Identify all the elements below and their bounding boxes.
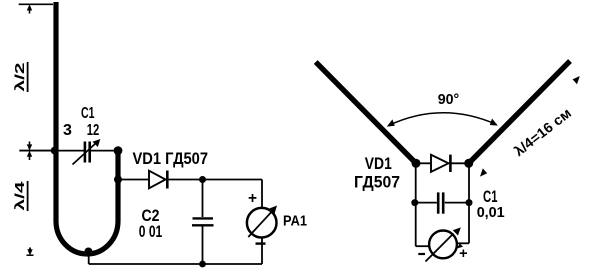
wire into meter right <box>457 242 470 244</box>
svg-text:λ/2: λ/2 <box>12 63 27 92</box>
node C2 top <box>199 176 206 183</box>
90 degree arc <box>389 113 497 126</box>
svg-text:3: 3 <box>63 122 72 139</box>
wire diode to PA1 corner <box>167 179 262 181</box>
diode VD1 (right circuit) <box>431 155 449 172</box>
svg-text:0 01: 0 01 <box>139 223 163 241</box>
svg-text:+: + <box>248 190 257 207</box>
node C2 bottom <box>199 261 206 268</box>
left vertical wire <box>415 163 417 246</box>
riser from antenna bottom <box>88 252 90 264</box>
bottom return wire <box>89 263 262 265</box>
dipole right arm <box>469 61 570 163</box>
svg-text:VD1: VD1 <box>365 155 392 173</box>
PA1 needle <box>248 211 272 237</box>
wire down to PA1 <box>261 180 263 209</box>
wire node to diode (right circuit) <box>416 162 431 164</box>
node left arm <box>412 159 421 168</box>
node on antenna at C1 wire <box>51 147 59 155</box>
dimension arrow top (up) <box>27 4 32 10</box>
node C1 right <box>466 199 473 206</box>
svg-text:90°: 90° <box>438 91 460 108</box>
meter PA1 <box>247 208 277 238</box>
wire PA1 bottom <box>261 238 263 265</box>
small arrowhead at meter right junction <box>457 243 463 248</box>
wire down to C2 <box>202 180 204 218</box>
capacitor C1 (right circuit) <box>416 202 437 204</box>
diode VD1 <box>149 171 166 189</box>
node C1 left <box>411 199 418 206</box>
node top of right element <box>114 146 123 155</box>
dimension arrow middle upper (down) <box>29 142 31 147</box>
svg-text:+: + <box>459 246 467 262</box>
svg-text:0,01: 0,01 <box>477 204 505 221</box>
dimension extension line top <box>19 3 53 5</box>
dim arrowhead near arm tip (up-right) <box>573 76 580 84</box>
svg-text:VD1 ГД507: VD1 ГД507 <box>133 149 209 168</box>
arc arrowhead left <box>387 119 395 126</box>
lambda/4 label bar <box>27 181 29 211</box>
svg-text:ГД507: ГД507 <box>354 173 400 191</box>
meter needle <box>426 234 454 262</box>
arc arrowhead right <box>490 119 498 126</box>
capacitor C2 plates <box>193 217 214 219</box>
meter minus <box>418 253 425 255</box>
capacitor C1 arrow <box>73 143 97 165</box>
node right arm <box>464 159 473 168</box>
capacitor C1 plates (variable) <box>84 142 87 163</box>
dimension extension line middle <box>19 150 53 152</box>
node VD1 tap on right element <box>114 176 122 184</box>
antenna folded element WA1 (left circuit) <box>56 2 118 254</box>
dimension arrow middle lower (up) <box>27 151 32 157</box>
wire into meter left <box>416 245 430 247</box>
wire C2 to bottom <box>202 227 204 265</box>
svg-text:PA1: PA1 <box>283 213 307 229</box>
wire to diode <box>118 179 149 181</box>
svg-text:λ/4: λ/4 <box>12 180 27 210</box>
svg-text:C2: C2 <box>142 206 160 225</box>
wire C1 row <box>19 150 84 152</box>
dim arrowhead near node (down-left) <box>480 168 487 176</box>
svg-text:C1: C1 <box>81 105 95 122</box>
svg-text:12: 12 <box>87 122 100 139</box>
right vertical wire <box>468 163 470 243</box>
dimension arrow bottom (down) <box>29 248 31 253</box>
lambda/2 label bar <box>27 62 29 92</box>
meter (right circuit) <box>429 231 457 259</box>
dipole left arm <box>316 62 416 163</box>
PA1 minus <box>256 242 266 244</box>
node antenna bottom tap <box>84 248 92 256</box>
